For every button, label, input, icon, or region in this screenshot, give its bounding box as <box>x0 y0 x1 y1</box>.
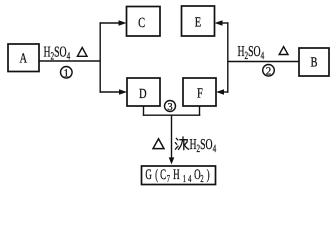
wire arrow stem to E <box>221 22 228 24</box>
box D <box>127 78 160 106</box>
label letter C <box>138 16 145 31</box>
svg-text:B: B <box>310 55 317 70</box>
svg-text:D: D <box>139 87 147 102</box>
label letter F <box>197 86 203 101</box>
wire left branch vertical <box>99 22 101 93</box>
svg-text:H2SO4: H2SO4 <box>190 137 217 155</box>
wire arrow stem to D <box>100 91 121 93</box>
label G formula <box>145 167 209 185</box>
label letter A <box>20 51 28 66</box>
wire descender from F <box>199 106 201 115</box>
box C <box>127 7 161 37</box>
svg-text:C: C <box>138 16 145 31</box>
label H2SO4 right <box>238 44 265 62</box>
label H2SO4 left <box>44 45 71 63</box>
label letter B <box>310 55 317 70</box>
svg-text:A: A <box>20 51 28 66</box>
svg-text:H2SO4: H2SO4 <box>238 44 265 62</box>
wire descender from D <box>143 106 145 115</box>
svg-text:H2SO4: H2SO4 <box>44 45 71 63</box>
arrowhead into F <box>216 89 224 94</box>
label nong (Chinese: concentrated) <box>175 137 188 150</box>
svg-text:G(C7H14O2): G(C7H14O2) <box>145 167 209 185</box>
wire arrow stem to C <box>100 22 120 24</box>
box A <box>8 44 39 72</box>
svg-text:2: 2 <box>266 65 272 77</box>
wire bracket joining D and F <box>143 114 201 116</box>
label delta bottom <box>153 139 164 149</box>
label delta left <box>77 48 87 57</box>
wire arrow stem to F <box>222 91 228 93</box>
circled 1 <box>61 67 73 80</box>
wire B to right branch <box>228 61 299 63</box>
label delta right <box>279 47 288 55</box>
label letter E <box>195 16 201 31</box>
svg-text:E: E <box>195 16 201 31</box>
circled 2 <box>263 65 275 78</box>
wire middle vertical to G <box>171 115 173 158</box>
circled 3 <box>165 101 176 113</box>
arrowhead into C <box>119 20 127 25</box>
box E <box>182 6 215 36</box>
box B <box>299 48 329 76</box>
arrowhead into D <box>119 89 127 94</box>
label letter D <box>139 87 147 102</box>
box F <box>183 78 216 106</box>
svg-text:F: F <box>197 86 203 101</box>
wire A to left branch <box>39 60 100 62</box>
label H2SO4 bottom (concentrated) <box>190 137 217 155</box>
arrowhead into E <box>215 20 223 25</box>
svg-text:3: 3 <box>167 102 172 113</box>
svg-text:1: 1 <box>64 67 70 79</box>
wire right branch vertical <box>227 22 229 93</box>
box G <box>142 166 216 185</box>
arrowhead into G <box>169 157 175 164</box>
